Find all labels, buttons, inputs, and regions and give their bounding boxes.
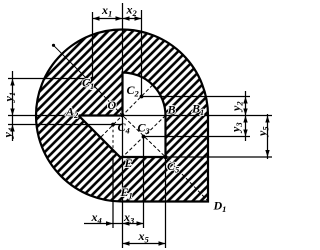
svg-text:C2: C2 (127, 83, 140, 99)
svg-text:x4: x4 (91, 210, 102, 226)
svg-text:y4: y4 (1, 128, 17, 140)
svg-text:y3: y3 (229, 122, 245, 134)
svg-text:y2: y2 (229, 101, 245, 113)
svg-text:E: E (124, 156, 133, 170)
svg-text:x2: x2 (126, 3, 138, 19)
svg-text:x1: x1 (101, 3, 112, 19)
svg-text:O: O (108, 98, 117, 112)
svg-text:y5: y5 (255, 126, 271, 138)
svg-text:y1: y1 (2, 92, 18, 104)
svg-text:D1: D1 (213, 199, 227, 215)
svg-text:C3: C3 (138, 121, 151, 137)
svg-text:x3: x3 (123, 210, 135, 226)
svg-text:x5: x5 (138, 229, 150, 245)
svg-text:B: B (167, 103, 176, 117)
svg-text:C4: C4 (118, 120, 130, 136)
